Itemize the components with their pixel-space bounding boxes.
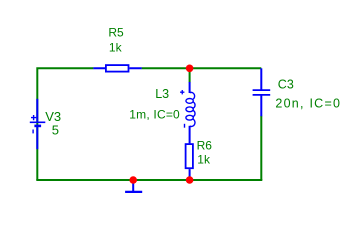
voltage source V3 (battery) (30, 99, 46, 149)
wire: top-right segment (142, 67, 262, 69)
value 1m, IC=0 (L3) (129, 107, 180, 121)
svg-text:20n, IC=0: 20n, IC=0 (275, 96, 341, 110)
value 5 (V3) (52, 122, 59, 137)
V3 minus marker (32, 130, 34, 134)
wire: right vertical lower segment (260, 116, 262, 180)
svg-text:1m, IC=0: 1m, IC=0 (129, 107, 180, 121)
value 20n, IC=0 (C3) (275, 96, 341, 110)
svg-text:L3: L3 (155, 87, 169, 101)
wire: left vertical + top-left segment (37, 68, 93, 180)
resistor R5 (93, 65, 141, 72)
label R5 (108, 26, 124, 40)
svg-text:5: 5 (52, 122, 59, 137)
V3 plus marker (31, 115, 36, 120)
value 1k (R5) (109, 41, 123, 55)
resistor R6 (186, 144, 193, 180)
wire: bottom horizontal (36, 179, 262, 181)
svg-text:R5: R5 (108, 26, 124, 40)
node junction dot (top, R5/L3/C3 net) (186, 65, 194, 73)
L3 plus marker (180, 90, 184, 94)
wire: middle branch top stub (189, 68, 191, 82)
label R6 (197, 139, 213, 153)
node junction dot (bottom, R6/ground net) (186, 176, 194, 184)
node junction dot (ground tap) (129, 176, 137, 184)
svg-text:1k: 1k (197, 152, 211, 166)
L3 minus marker (184, 124, 186, 128)
label L3 (155, 87, 169, 101)
label V3 (45, 109, 61, 124)
inductor L3 (186, 82, 195, 143)
ground (125, 183, 142, 192)
svg-text:R6: R6 (197, 139, 213, 153)
value 1k (R6) (197, 152, 211, 166)
svg-text:1k: 1k (109, 41, 123, 55)
capacitor C3 (253, 68, 271, 116)
label C3 (278, 78, 294, 92)
svg-text:C3: C3 (278, 78, 294, 92)
